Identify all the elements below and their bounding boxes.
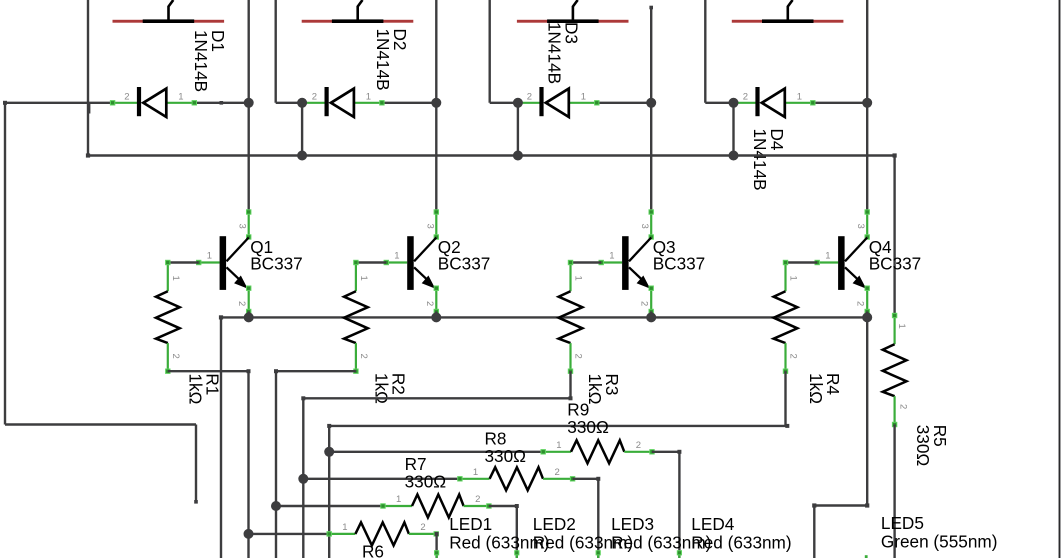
svg-text:3: 3: [424, 224, 435, 229]
resistor R7: [271, 494, 519, 558]
label D3 1N414B: [545, 22, 582, 84]
transistor Q3: [571, 103, 706, 318]
wire emitter bus: [219, 315, 867, 319]
svg-text:2: 2: [358, 354, 369, 359]
resistor R6: [244, 522, 439, 558]
svg-text:2: 2: [898, 404, 909, 409]
svg-text:330Ω: 330Ω: [485, 446, 527, 466]
switch S1: [113, 0, 225, 23]
label LED4: [691, 514, 791, 553]
label R9 330: [567, 399, 609, 437]
svg-text:330Ω: 330Ω: [405, 472, 447, 492]
label D2 1N414B: [373, 29, 410, 91]
svg-text:2: 2: [475, 494, 480, 505]
diode D1: [110, 87, 248, 117]
svg-text:LED1: LED1: [449, 514, 492, 534]
svg-text:1: 1: [573, 276, 584, 281]
label LED1: [449, 514, 549, 553]
svg-text:330Ω: 330Ω: [913, 425, 933, 467]
wire LED pin tip x436: [435, 551, 439, 558]
label R5 330: [913, 425, 950, 467]
node long line taps: [297, 103, 738, 161]
resistor R1: [156, 260, 181, 373]
wire R1 bottom: [168, 369, 251, 558]
svg-text:2: 2: [788, 354, 799, 359]
wire S3 left bus: [490, 0, 518, 103]
resistor R5: [883, 313, 909, 558]
label R4 1k: [806, 373, 843, 404]
wire S4 left bus: [705, 0, 733, 103]
node diode row dots: [244, 98, 873, 108]
wire LED pin tip x516: [515, 551, 519, 558]
svg-text:2: 2: [420, 522, 425, 533]
svg-text:2: 2: [555, 467, 560, 478]
svg-text:2: 2: [573, 354, 584, 359]
svg-text:2: 2: [743, 91, 748, 102]
switch S3: [517, 0, 629, 23]
svg-text:Green (555nm): Green (555nm): [881, 531, 998, 551]
resistor R3: [559, 260, 584, 373]
svg-text:1kΩ: 1kΩ: [186, 373, 206, 404]
label R8 330: [485, 429, 527, 467]
svg-text:1: 1: [896, 324, 907, 329]
svg-text:1: 1: [788, 276, 799, 281]
wire S2 right bus: [435, 0, 437, 103]
svg-text:BC337: BC337: [438, 254, 491, 274]
transistor Q2: [356, 103, 490, 318]
svg-text:2: 2: [639, 301, 650, 306]
wire LED5 pin tip: [865, 555, 868, 558]
diode D4: [731, 87, 867, 117]
svg-text:Red (633nm): Red (633nm): [691, 532, 791, 552]
svg-text:1: 1: [178, 91, 183, 102]
wire left loop: [3, 101, 198, 504]
wire bus A down: [220, 317, 222, 558]
svg-text:1: 1: [581, 91, 586, 102]
svg-text:1: 1: [366, 91, 371, 102]
svg-text:1: 1: [396, 494, 401, 505]
wire S3 right bus: [649, 6, 653, 103]
svg-text:2: 2: [236, 301, 247, 306]
switch S4: [732, 0, 844, 23]
svg-text:BC337: BC337: [250, 254, 303, 274]
svg-text:1: 1: [207, 250, 212, 261]
svg-text:2: 2: [170, 354, 181, 359]
resistor R8: [298, 467, 600, 558]
svg-text:1: 1: [797, 91, 802, 102]
diode D2: [300, 87, 436, 117]
wire Q4 emitter jog: [812, 317, 869, 558]
svg-text:R6: R6: [362, 542, 384, 558]
resistor R9: [324, 440, 681, 558]
label R6 330: [362, 542, 384, 558]
svg-text:1: 1: [556, 440, 561, 451]
wire S1 left bus: [88, 0, 90, 156]
label D1 1N414B: [191, 30, 228, 92]
svg-text:2: 2: [636, 440, 641, 451]
svg-text:1N414B: 1N414B: [191, 30, 211, 92]
resistor R4: [774, 260, 799, 373]
wire right edge: [1059, 0, 1061, 558]
svg-text:BC337: BC337: [653, 254, 706, 274]
wire S4 right bus: [866, 0, 868, 103]
transistor Q4: [786, 103, 922, 318]
label D4 1N414B: [750, 129, 787, 191]
svg-text:1: 1: [170, 276, 181, 281]
svg-text:1: 1: [394, 250, 399, 261]
label LED3: [611, 514, 711, 553]
svg-text:1: 1: [473, 467, 478, 478]
svg-text:1: 1: [358, 276, 369, 281]
switch S2: [302, 0, 414, 23]
svg-text:1: 1: [609, 250, 614, 261]
wire LED pin tip x598: [596, 551, 600, 558]
diode D3: [516, 87, 652, 117]
svg-text:1kΩ: 1kΩ: [806, 373, 826, 404]
resistor R2: [344, 260, 369, 373]
wire R2 bottom: [274, 369, 356, 558]
svg-text:2: 2: [312, 91, 317, 102]
svg-text:LED3: LED3: [611, 514, 654, 534]
svg-text:1: 1: [342, 522, 347, 533]
svg-text:330Ω: 330Ω: [567, 417, 609, 437]
label R7 330: [405, 454, 447, 492]
svg-text:2: 2: [855, 301, 866, 306]
svg-text:LED5: LED5: [881, 513, 924, 533]
svg-text:1: 1: [825, 250, 830, 261]
wire S1 right bus: [247, 0, 249, 103]
svg-text:2: 2: [424, 301, 435, 306]
label R2 1k: [372, 373, 409, 404]
svg-text:3: 3: [237, 224, 248, 229]
wire LED pin tip x679: [677, 551, 681, 558]
wire R4 bottom: [327, 371, 789, 558]
transistor Q1: [168, 103, 303, 318]
svg-text:3: 3: [639, 224, 650, 229]
label LED5: [881, 513, 998, 552]
svg-text:2: 2: [124, 91, 129, 102]
svg-text:1N414B: 1N414B: [545, 22, 565, 84]
label R3 1k: [585, 374, 622, 405]
svg-text:BC337: BC337: [869, 254, 922, 274]
svg-text:LED2: LED2: [533, 514, 576, 534]
svg-text:1N414B: 1N414B: [373, 29, 393, 91]
label R1 1k: [186, 373, 223, 404]
wire R3 bottom: [301, 371, 572, 558]
svg-text:LED4: LED4: [691, 514, 734, 534]
svg-text:1N414B: 1N414B: [750, 129, 770, 191]
wire S2 left bus: [276, 0, 302, 103]
label LED2: [533, 514, 633, 553]
svg-text:2: 2: [527, 91, 532, 102]
node emitter dots: [244, 312, 873, 322]
wire bus long line: [86, 153, 897, 315]
svg-text:3: 3: [855, 224, 866, 229]
